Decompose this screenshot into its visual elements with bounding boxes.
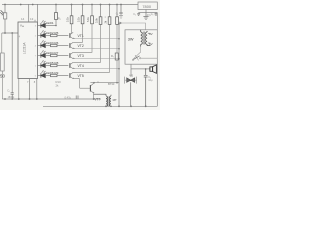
wire right edge upper [156, 13, 158, 30]
svg-text:VT5: VT5 [78, 74, 84, 78]
microphone B left edge [1, 33, 3, 53]
svg-text:2: 2 [35, 36, 37, 38]
svg-text:BT33: BT33 [108, 82, 115, 86]
svg-text:6V: 6V [149, 42, 153, 46]
svg-text:MT: MT [113, 98, 117, 102]
transistor VT4 [70, 24, 101, 68]
svg-text:1: 1 [35, 66, 37, 68]
svg-text:R₁: R₁ [58, 18, 61, 21]
svg-text:VS: VS [129, 74, 133, 78]
node junction [4, 32, 6, 34]
svg-text:5: 5 [35, 76, 37, 78]
capacitor C3 [137, 13, 140, 17]
wire top rail [2, 4, 138, 6]
svg-text:10μ: 10μ [148, 79, 153, 82]
transistor VT5 [70, 24, 110, 78]
wire bottom rail A [2, 98, 101, 100]
capacitor C2 on rail [119, 5, 122, 14]
capacitor C1 on rail [76, 96, 78, 99]
svg-text:LC219A: LC219A [22, 42, 26, 54]
resistor R13 [91, 5, 93, 16]
svg-text:4: 4 [19, 35, 21, 38]
wire bottom rail B [43, 105, 157, 107]
wire collector rail y82.7 [90, 82, 119, 84]
svg-text:13: 13 [30, 17, 34, 21]
svg-text:5.1k: 5.1k [86, 16, 90, 22]
resistor R12 [82, 5, 84, 16]
svg-text:50: 50 [0, 74, 5, 79]
svg-text:VT1: VT1 [78, 34, 84, 38]
wire IC top pins [29, 4, 38, 23]
wire riser VT7 [116, 24, 118, 82]
svg-text:7: 7 [27, 80, 29, 84]
transistor VT7 [80, 83, 101, 101]
resistor R16 [116, 5, 118, 17]
svg-text:LED1: LED1 [46, 21, 54, 25]
IC U1 box [18, 22, 38, 79]
resistor R17 [115, 53, 118, 60]
svg-text:C₁: C₁ [116, 13, 119, 16]
capacitor C5 [144, 69, 148, 106]
ground [143, 13, 148, 20]
svg-text:3.0k: 3.0k [95, 17, 99, 23]
svg-text:VT3: VT3 [78, 54, 84, 58]
resistor R14 [100, 5, 102, 17]
svg-text:×: × [105, 15, 107, 19]
transistor VT1 [70, 24, 84, 39]
svg-text:3W: 3W [128, 37, 134, 41]
node rail dots [4, 4, 122, 6]
wire below module [131, 64, 151, 76]
LED LED5 row5 + resistor R8 [38, 60, 69, 67]
resistor R4 [55, 5, 57, 13]
wire right edge [156, 64, 158, 106]
LED LED1 row1 [38, 20, 57, 27]
transformer T [141, 30, 151, 47]
wire emitters to bus [75, 39, 119, 69]
power module box [125, 30, 157, 64]
transformer MT [94, 94, 111, 106]
transistor VT3 [70, 24, 92, 59]
svg-text:3: 3 [35, 26, 37, 28]
svg-text:8: 8 [34, 80, 36, 84]
LED LED6 row6 + resistor R9 [38, 70, 69, 87]
svg-text:7800: 7800 [142, 4, 151, 9]
switch K [132, 59, 133, 60]
wire input node to IC pin 4 [2, 32, 18, 34]
wire emitter bus left [79, 79, 81, 89]
transistor VT2 [70, 24, 84, 49]
svg-text:C₁: C₁ [7, 90, 10, 93]
svg-text:5.1k: 5.1k [77, 16, 81, 22]
wire IC bottom pins [30, 79, 37, 100]
svg-text:R₇: R₇ [111, 55, 114, 58]
wire junction down [11, 33, 13, 93]
svg-text:VT2: VT2 [78, 44, 84, 48]
wire caps below regulator [139, 12, 158, 14]
resistor R11 [71, 5, 73, 16]
svg-text:V₆₆: V₆₆ [20, 23, 24, 27]
wire ac link [119, 23, 146, 30]
speaker BL [150, 67, 153, 71]
pin numbers right edge [35, 26, 37, 78]
svg-text:5.1k: 5.1k [66, 16, 70, 22]
wire IC pin 13 down [18, 79, 20, 100]
capacitor C4 [155, 13, 158, 17]
svg-text:C₂: C₂ [133, 13, 136, 16]
svg-text:4: 4 [35, 46, 37, 48]
svg-text:14: 14 [21, 17, 25, 21]
svg-text:0.47μ: 0.47μ [65, 95, 72, 99]
resistor R15 [109, 5, 111, 17]
svg-text:C₃: C₃ [151, 13, 154, 16]
svg-text:2k: 2k [56, 83, 60, 87]
svg-text:VT4: VT4 [78, 64, 84, 68]
LED LED3 row3 + resistor R6 [38, 40, 69, 47]
wire emitter bus right [118, 23, 120, 106]
LED LED2 row2 + resistor R5 [38, 30, 69, 37]
voltage regulator U2 7800 box [138, 2, 157, 10]
svg-text:7: 7 [35, 56, 37, 58]
svg-text:2k: 2k [104, 20, 108, 23]
svg-text:9V: 9V [149, 32, 153, 36]
LED LED4 row4 + resistor R7 [38, 50, 69, 57]
photoresistor RG [4, 5, 6, 13]
svg-text:1800p: 1800p [8, 96, 15, 99]
triac VS [125, 77, 137, 107]
capacitor C6 in line [11, 93, 14, 99]
